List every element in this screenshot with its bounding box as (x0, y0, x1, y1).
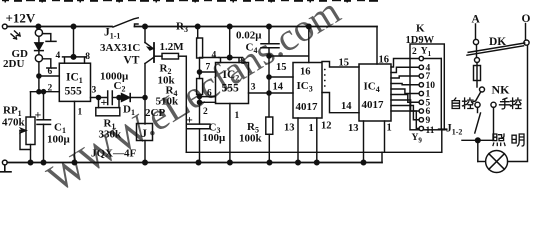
pin 13 wire (297, 118, 299, 163)
svg-text:J1-2: J1-2 (446, 123, 462, 137)
svg-text:15: 15 (339, 58, 350, 69)
svg-text:3AX31C: 3AX31C (100, 42, 140, 54)
base bar (153, 43, 155, 62)
capacitor C3 100u (186, 113, 226, 163)
mains terminal A (472, 14, 481, 45)
contact Y3 (419, 74, 423, 78)
node rail-IC2 (227, 24, 232, 29)
resistor R4 (vertical box) (197, 79, 203, 95)
wire IC4 output to contact Y3 (391, 76, 419, 78)
ground symbol (1, 165, 12, 172)
svg-text:4: 4 (56, 51, 61, 61)
contact manual (shoukong) (491, 102, 496, 107)
emitter diagonal with arrow (145, 43, 153, 49)
pin 1 wire (316, 118, 318, 163)
ground nodes (28, 160, 33, 165)
resistor R3 (vertical box) (197, 27, 199, 39)
node C4-IC3pin16 line (267, 54, 271, 58)
contact Y8 (419, 118, 423, 122)
node D1 anode (117, 95, 121, 99)
svg-text:2: 2 (412, 47, 417, 57)
contact Y5 (419, 91, 423, 95)
node rail-C4 (267, 24, 272, 29)
wire (38, 51, 40, 55)
svg-text:IC3: IC3 (297, 80, 313, 94)
node pin3 (96, 95, 100, 99)
envelope circle top (35, 29, 42, 36)
svg-text:VT: VT (124, 55, 140, 67)
svg-text:470k: 470k (2, 117, 26, 129)
wire down to pin7 tee (199, 58, 201, 79)
svg-text:+12V: +12V (6, 11, 36, 26)
carry stub to IC4 clock (322, 93, 359, 113)
svg-text:13: 13 (284, 123, 295, 134)
node pin2 (197, 100, 201, 104)
wire bar to rail (73, 27, 75, 57)
lamp (478, 151, 508, 173)
+12V supply terminal (2, 24, 7, 29)
node pin6 (197, 95, 201, 99)
guard lead bottom (43, 59, 57, 68)
node pin6 tee (37, 74, 41, 78)
wire C4 node to pin16 line (269, 55, 309, 57)
wire below R4 (199, 95, 201, 124)
contact box (410, 44, 444, 130)
node pin2 tee (37, 90, 41, 94)
svg-text:100μ: 100μ (203, 132, 227, 144)
contact auto (zikong) (475, 102, 480, 107)
node rail-IC1 (71, 24, 76, 29)
svg-text:8: 8 (85, 52, 90, 62)
wire pin 3 (91, 97, 108, 99)
wiper lead (20, 131, 31, 150)
node rail-IC3pin16 (307, 24, 312, 29)
svg-text:R3: R3 (176, 21, 188, 35)
transistor VT 3AX31C (100, 27, 154, 125)
pin4-8 bar (219, 58, 243, 63)
wire pin 6 (39, 75, 59, 77)
svg-text:13: 13 (348, 123, 359, 134)
wire IC4 output to contact Y1 (391, 59, 419, 68)
wire +12V rail right (135, 26, 378, 28)
svg-text:16: 16 (379, 55, 390, 66)
ground terminal (2, 160, 7, 165)
wire IC4 output to contact Y4 (391, 84, 419, 85)
node rail-photodiode (36, 24, 41, 29)
rotary switch K 1D9W (406, 23, 447, 153)
svg-text:2DU: 2DU (3, 58, 24, 70)
svg-text:1: 1 (78, 108, 83, 118)
wire to IC2 bar (200, 57, 220, 59)
pin 3 wire (249, 92, 294, 94)
ground rail stub up (381, 152, 383, 162)
node bar (71, 55, 76, 60)
base network R2 R3 R4 (155, 21, 219, 153)
RP1 box (26, 117, 35, 145)
diode triangle (35, 43, 43, 50)
line down to D1 node (144, 64, 146, 125)
feedback line to K common (186, 151, 441, 153)
svg-text:16: 16 (300, 67, 311, 78)
wire IC4 output to contact Y7 (391, 100, 419, 111)
wiper line from Y1 to bus (424, 58, 442, 60)
svg-text:4017: 4017 (362, 99, 385, 111)
fuse and switch NK chain (472, 45, 510, 102)
switch J1-1 (113, 18, 138, 27)
node pin7 (197, 70, 201, 74)
wire pin 2 (31, 91, 60, 93)
svg-text:IC1: IC1 (66, 72, 83, 86)
contact Y2 (419, 65, 423, 69)
top cut-off caption text row (2, 0, 378, 3)
pin4-8 top bar (63, 57, 87, 63)
svg-text:100k: 100k (239, 133, 263, 145)
pin 7 wire (200, 71, 216, 73)
wire IC4 output to contact Y5 (391, 89, 419, 94)
relay contact J1-2 (446, 107, 494, 161)
svg-text:1: 1 (309, 123, 314, 134)
svg-text:3: 3 (92, 86, 97, 96)
pin 1 wire (74, 101, 76, 162)
svg-text:6: 6 (48, 67, 53, 77)
svg-text:1: 1 (235, 111, 240, 121)
svg-text:100μ: 100μ (47, 134, 71, 146)
coupling network C2 R1 D1 (96, 71, 166, 141)
IC2 555 timer (200, 27, 294, 163)
light arrows (11, 31, 20, 39)
collector-emitter line (144, 27, 146, 43)
svg-text:9: 9 (426, 116, 431, 126)
wire IC4 output to contact Y2 (391, 67, 419, 72)
svg-text:K: K (416, 23, 425, 35)
common bus (440, 59, 442, 130)
svg-text:2: 2 (48, 84, 53, 94)
collector diagonal (145, 58, 154, 64)
wire from rail (37, 27, 39, 30)
svg-text:J1-1: J1-1 (104, 27, 120, 41)
capacitor C2 plates (107, 91, 109, 105)
svg-text:WWW.eLecfans.com: WWW.eLecfans.com (40, 0, 347, 190)
envelope circle bottom (35, 55, 42, 62)
capacitor C4 0.02u (236, 27, 279, 118)
feedback wire down (185, 56, 187, 152)
contact Y6 (419, 100, 423, 104)
pin16 wire to rail (308, 27, 310, 63)
dots unused outputs (324, 69, 326, 71)
common down wire (441, 130, 443, 152)
IC1 box (59, 63, 90, 101)
wiper arrow (20, 130, 25, 132)
resistor R1 330k (99, 98, 120, 108)
svg-text:NK: NK (492, 83, 511, 97)
pin 6 wire (200, 96, 216, 98)
svg-text:11: 11 (426, 126, 435, 136)
capacitor C1 100u (35, 90, 71, 163)
svg-text:Y9: Y9 (412, 133, 423, 145)
node rail-R3 (195, 24, 200, 29)
node D1 cathode (143, 95, 147, 99)
pin 15 wire (269, 76, 293, 78)
manual wire (493, 107, 495, 140)
wire down to pin6 tee (38, 62, 40, 92)
resistor R2 10k (horizontal box) (162, 53, 179, 59)
pin 1 wire (384, 121, 386, 152)
contacts (419, 56, 435, 130)
contact Y9 (419, 126, 423, 130)
wire (112, 97, 121, 99)
photodiode GD 2DU (3, 27, 56, 94)
relay coil J (91, 124, 153, 163)
diode bar (35, 50, 44, 52)
diode D1 (122, 94, 130, 102)
contact Y7 (419, 109, 423, 113)
plates (37, 119, 51, 121)
wire IC4 output to contact Y6 (391, 95, 419, 103)
svg-text:14: 14 (341, 101, 352, 112)
pin16 wire from rail bend (376, 27, 378, 65)
svg-text:14: 14 (273, 82, 284, 93)
wire IC4 output to contact Y9 (391, 111, 419, 129)
base wire (155, 55, 162, 57)
guard lead top (43, 34, 57, 42)
label shoukong (manual control) (500, 98, 511, 109)
svg-text:555: 555 (65, 86, 83, 98)
node C1 top (41, 90, 45, 94)
resistor R5 100k (239, 117, 273, 163)
label zhaoming (lighting) (493, 134, 505, 146)
pin 1 wire (229, 104, 231, 163)
svg-text:IC4: IC4 (364, 81, 380, 95)
mains terminal O (522, 13, 531, 45)
IC3 4017 counter (269, 27, 359, 163)
node clock (267, 91, 271, 95)
lamp return wire (508, 45, 528, 161)
svg-text:12: 12 (321, 121, 332, 132)
wire from pin2 line down (30, 92, 32, 117)
potentiometer RP1 470k (2, 92, 35, 163)
wire (38, 36, 40, 42)
pin 2 wire (200, 101, 216, 103)
label zikong (auto control) (452, 98, 459, 109)
svg-text:1: 1 (387, 123, 392, 134)
chinese labels (custom glyphs) (452, 98, 524, 146)
svg-text:4017: 4017 (296, 101, 319, 113)
unused output stub top (322, 62, 359, 68)
pin 13 wire (363, 121, 365, 163)
contact Y4 (419, 83, 423, 87)
switch DK (467, 36, 525, 55)
node rail-VT (143, 24, 148, 29)
contact Y1 (419, 56, 423, 60)
IC1 555 timer (31, 27, 108, 163)
ground rail (7, 162, 382, 164)
IC4 4017 counter (339, 27, 392, 163)
wire +12V rail left (7, 26, 112, 28)
wire IC4 output to contact Y8 (391, 106, 419, 120)
node pin15 (267, 75, 271, 79)
wires IC4 outputs to K contacts (391, 59, 419, 129)
bottom lead (30, 145, 32, 163)
svg-text:1.2M: 1.2M (160, 41, 185, 53)
bus bottom bar (439, 128, 447, 130)
